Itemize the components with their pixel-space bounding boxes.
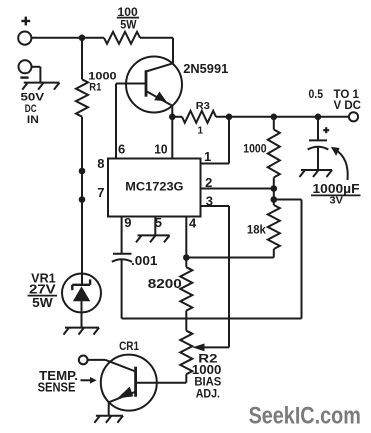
svg-text:2N5991: 2N5991 — [183, 61, 228, 76]
svg-text:1: 1 — [198, 126, 204, 137]
svg-text:SeekIC.com: SeekIC.com — [249, 402, 361, 429]
svg-text:1000: 1000 — [243, 142, 267, 156]
svg-text:7: 7 — [97, 185, 104, 200]
svg-text:27V: 27V — [29, 283, 56, 297]
svg-text:CR1: CR1 — [119, 339, 139, 353]
svg-text:SENSE: SENSE — [38, 381, 76, 395]
svg-text:R3: R3 — [196, 101, 210, 112]
svg-text:5W: 5W — [32, 296, 53, 310]
svg-text:18k: 18k — [247, 223, 266, 237]
svg-text:1000µF: 1000µF — [313, 181, 360, 196]
svg-text:2: 2 — [205, 175, 212, 190]
svg-text:R1: R1 — [89, 81, 101, 93]
svg-text:0.5: 0.5 — [309, 87, 324, 101]
svg-text:DC: DC — [25, 103, 37, 115]
svg-text:9: 9 — [124, 215, 131, 230]
svg-text:V DC: V DC — [334, 99, 362, 112]
svg-text:8200: 8200 — [148, 276, 182, 291]
svg-text:.001: .001 — [131, 254, 158, 268]
svg-text:1: 1 — [204, 149, 211, 164]
svg-text:10: 10 — [154, 142, 167, 157]
svg-text:5: 5 — [155, 215, 162, 230]
svg-text:IN: IN — [27, 114, 39, 126]
svg-text:8: 8 — [97, 156, 104, 171]
svg-text:4: 4 — [189, 216, 197, 231]
svg-text:ADJ.: ADJ. — [196, 386, 220, 400]
svg-text:3V: 3V — [330, 196, 344, 207]
svg-text:6: 6 — [118, 142, 125, 157]
svg-text:MC1723G: MC1723G — [125, 179, 183, 193]
svg-text:50V: 50V — [21, 92, 45, 104]
svg-text:5W: 5W — [120, 17, 137, 31]
svg-text:3: 3 — [206, 194, 213, 209]
